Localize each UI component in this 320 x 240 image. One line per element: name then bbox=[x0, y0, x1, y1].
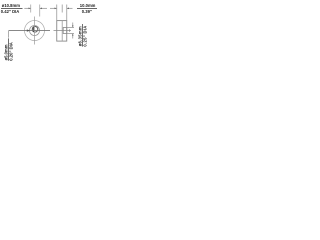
svg-text:0.42" DIA: 0.42" DIA bbox=[1, 9, 20, 14]
svg-text:ø10.8mm: ø10.8mm bbox=[2, 3, 20, 8]
svg-text:0.20" DIA: 0.20" DIA bbox=[8, 42, 13, 61]
svg-text:0.39": 0.39" bbox=[82, 9, 92, 14]
svg-text:0.25" DIA: 0.25" DIA bbox=[82, 25, 87, 46]
svg-text:10.0mm: 10.0mm bbox=[80, 3, 96, 8]
